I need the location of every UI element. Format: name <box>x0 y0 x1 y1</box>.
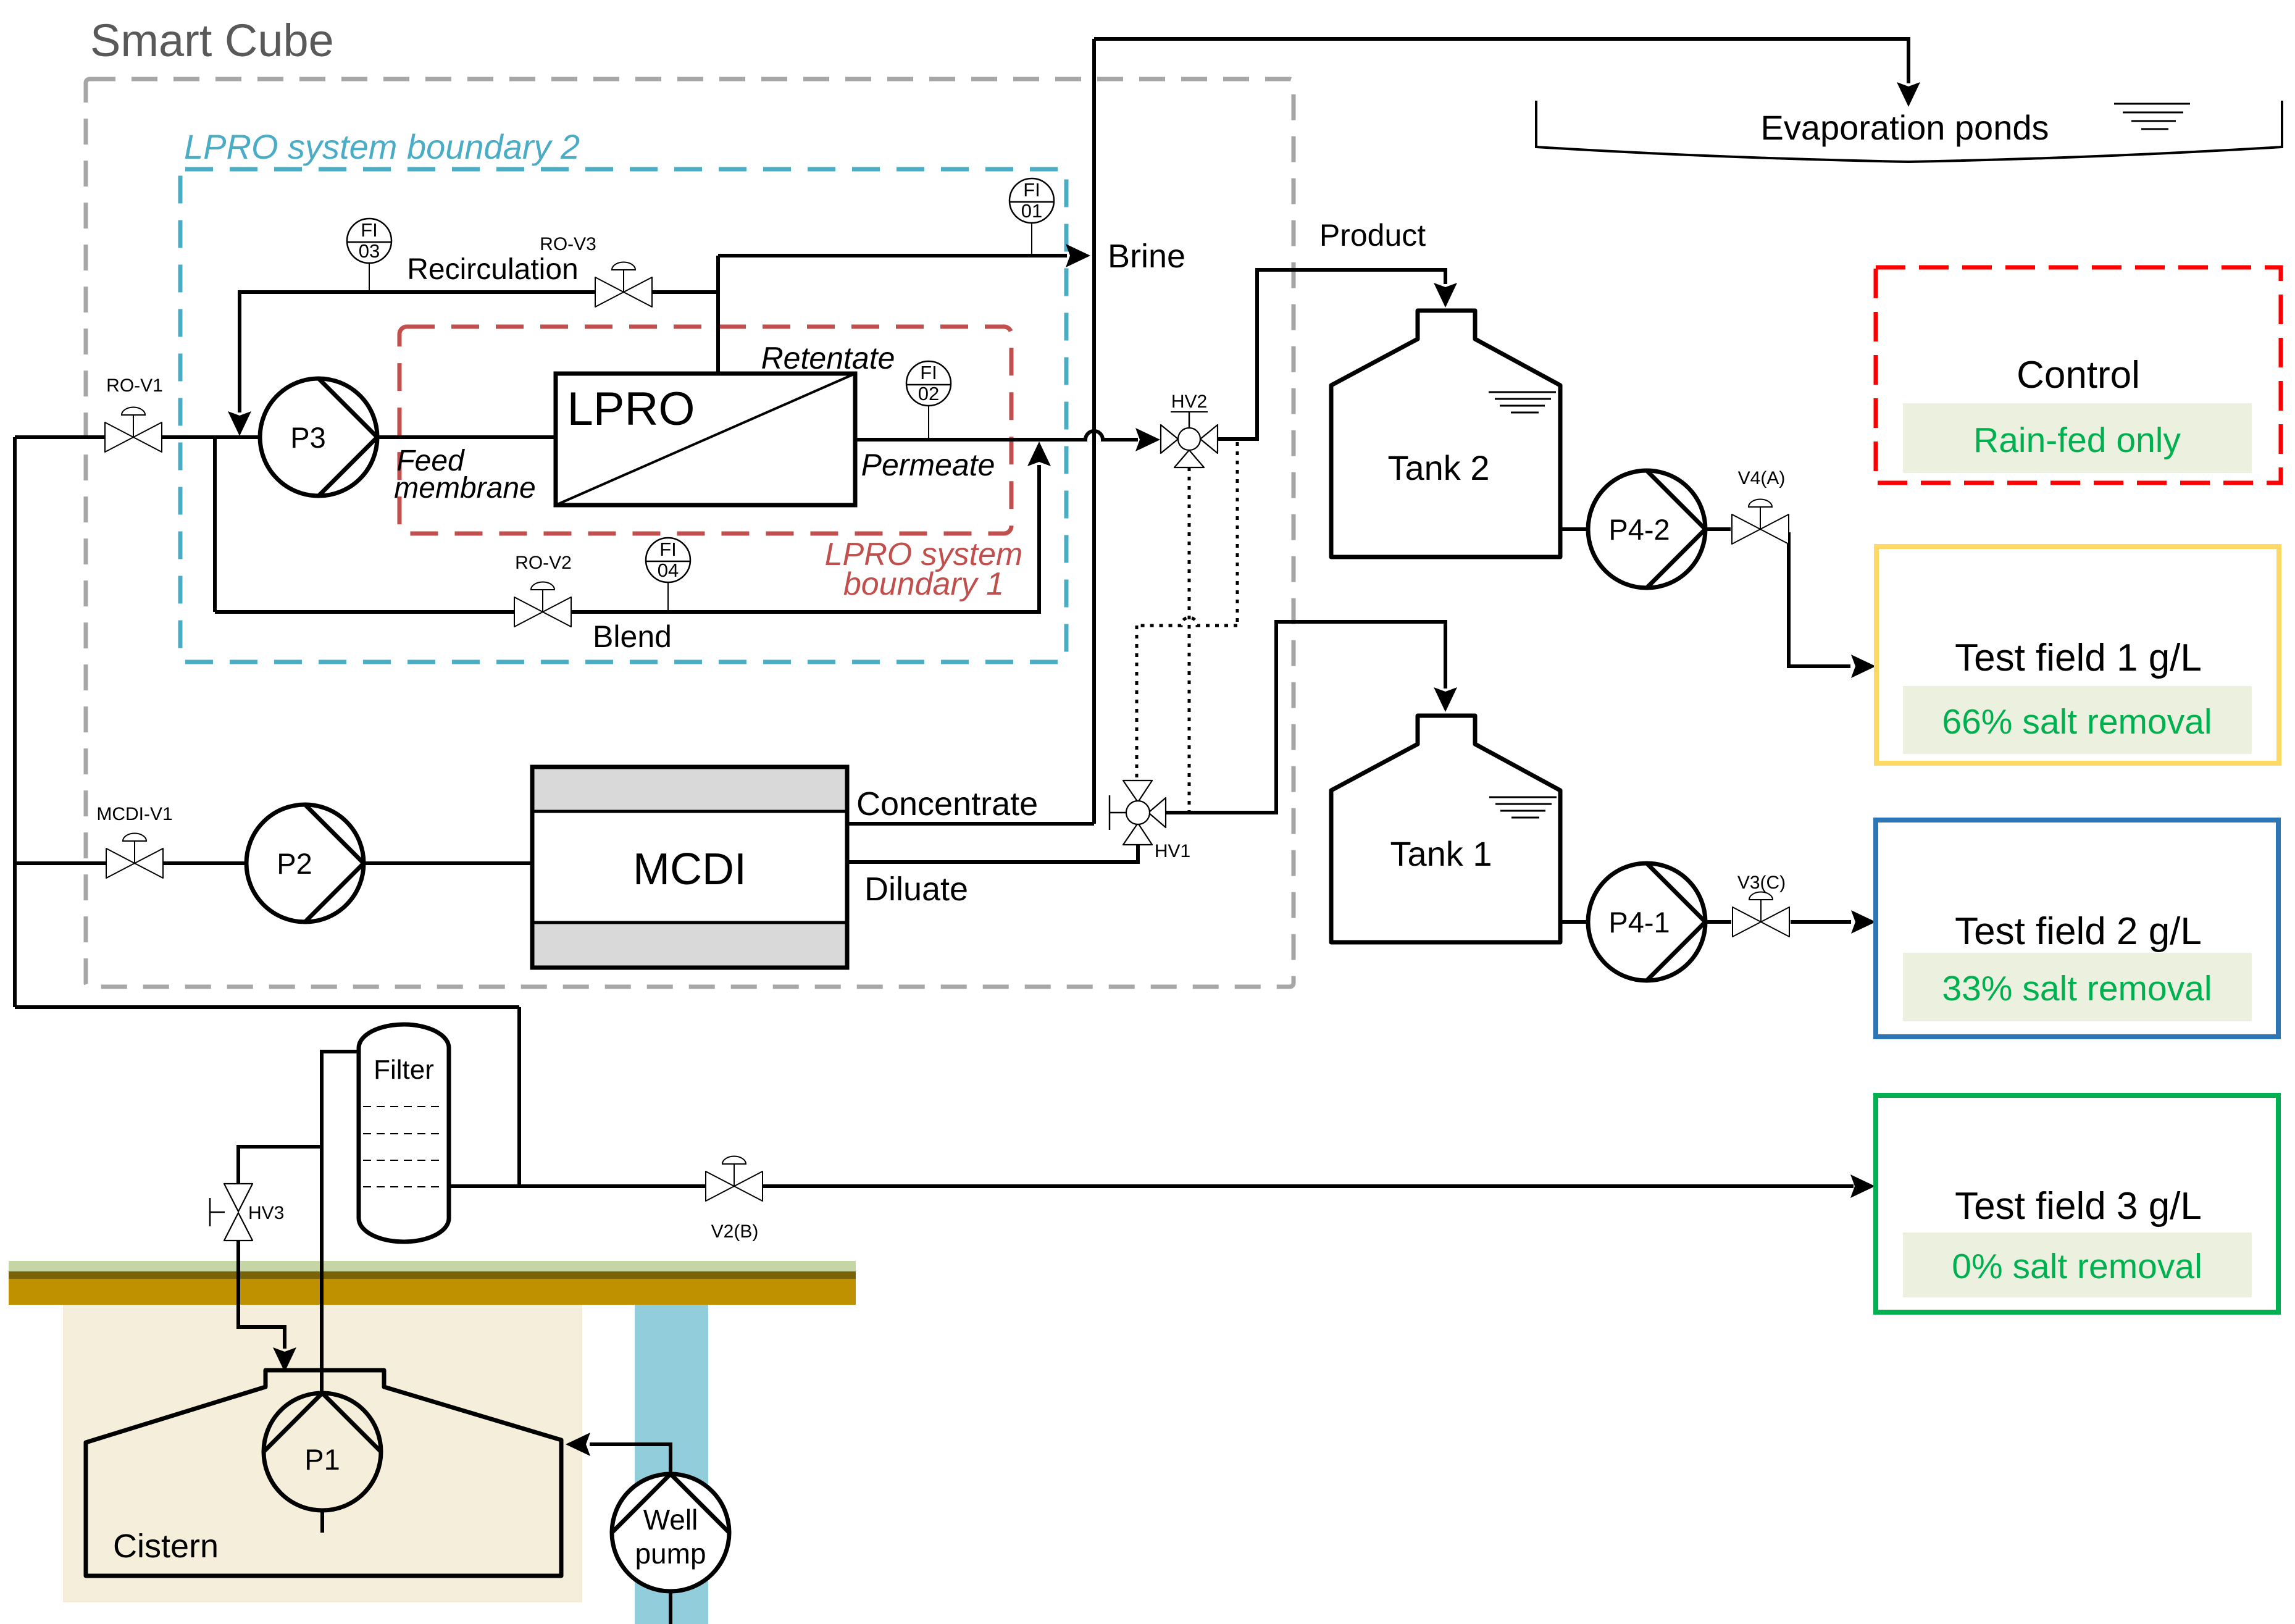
ground layer earth (gold band) <box>9 1279 856 1305</box>
instrument FI-01 <box>1010 178 1054 254</box>
Smart Cube boundary (gray dashed box) <box>86 79 1294 987</box>
svg-text:Rain-fed only: Rain-fed only <box>1973 421 2181 460</box>
svg-text:04: 04 <box>658 559 679 581</box>
wire: HV1 outlet to Tank 1 <box>1166 622 1445 813</box>
svg-text:RO-V1: RO-V1 <box>106 375 163 396</box>
svg-text:01: 01 <box>1021 200 1042 222</box>
wire: filtered water distribution line to Test field 3 <box>449 1184 1854 1188</box>
wire: V3(C) to Test field 2 <box>1791 920 1851 924</box>
evaporation pond water level symbol <box>2114 104 2190 129</box>
pump P3 <box>260 379 377 496</box>
svg-text:Permeate: Permeate <box>861 448 995 482</box>
LPRO system boundary 2 (blue dashed box) <box>180 169 1066 662</box>
signal: dotted line HV2 bottom port down to Tank 1 line <box>1188 467 1191 811</box>
wire: MCDI feed branch <box>15 861 532 865</box>
signal: dotted cross line with hop <box>1137 617 1237 626</box>
arrow recirculation into feed line <box>228 411 251 436</box>
valve RO-V1 <box>105 408 162 453</box>
valve V3(C) <box>1733 892 1789 937</box>
arrow into evaporation pond <box>1897 82 1920 107</box>
wire: bottom header from riser to filter riser <box>15 1005 519 1009</box>
svg-text:P4-1: P4-1 <box>1608 906 1670 939</box>
instrument FI-02 <box>906 361 951 438</box>
arrow product into Tank 2 <box>1434 283 1457 308</box>
svg-text:MCDI: MCDI <box>633 845 746 894</box>
svg-text:RO-V2: RO-V2 <box>515 553 572 573</box>
wire: recirculation line <box>240 292 718 412</box>
wire: V4(A) to Test field 1 <box>1789 532 1850 666</box>
svg-text:Evaporation ponds: Evaporation ponds <box>1760 108 2049 147</box>
ground layer topsoil (light green) <box>9 1261 856 1271</box>
svg-text:03: 03 <box>359 240 380 262</box>
svg-text:HV1: HV1 <box>1155 841 1190 861</box>
valve RO-V3 <box>595 262 652 308</box>
Test field 2 box (blue) <box>1876 820 2278 1037</box>
svg-text:P3: P3 <box>290 421 326 454</box>
valve HV1 (3-way valve) <box>1110 781 1166 845</box>
instrument FI-04 <box>646 538 690 610</box>
wire: P1 suction stub <box>320 1510 324 1533</box>
wire: HV3 branch from filter riser <box>238 1147 322 1184</box>
valve MCDI-V1 <box>106 834 163 879</box>
ground layer subsoil (dark olive stripe) <box>9 1271 856 1279</box>
pump P1 <box>264 1393 381 1510</box>
Tank 2 <box>1331 311 1560 557</box>
svg-text:02: 02 <box>918 383 939 404</box>
valve HV2 (3-way valve) <box>1161 411 1218 467</box>
arrow well water into cistern <box>566 1433 590 1456</box>
svg-text:33% salt removal: 33% salt removal <box>1942 969 2212 1008</box>
svg-text:Tank 2: Tank 2 <box>1388 448 1490 487</box>
Tank 2 water level symbol <box>1489 392 1556 412</box>
svg-text:membrane: membrane <box>394 472 535 504</box>
signal: dotted line down to HV1 top port <box>1135 626 1139 781</box>
wire: brine line <box>718 254 1067 257</box>
svg-text:LPRO system boundary 2: LPRO system boundary 2 <box>184 127 580 166</box>
svg-text:Product: Product <box>1319 218 1426 253</box>
svg-text:Control: Control <box>2017 354 2140 396</box>
svg-text:V3(C): V3(C) <box>1737 873 1786 893</box>
wire: retentate riser from LPRO to brine line <box>716 256 720 374</box>
label Feed membrane <box>394 445 535 504</box>
wire: HV2 outlet to product riser <box>1218 270 1445 439</box>
cistern tank outline <box>86 1370 561 1576</box>
wire: evaporation pond header <box>1094 39 1908 83</box>
svg-text:Recirculation: Recirculation <box>407 253 578 286</box>
svg-text:V4(A): V4(A) <box>1738 468 1786 488</box>
svg-text:FI: FI <box>1023 179 1040 201</box>
wire: blend branch down from feed header <box>213 437 217 612</box>
membrane unit LPRO <box>556 374 855 505</box>
wire: MCDI diluate line to HV1 <box>847 842 1138 862</box>
wire: P4-1 to V3(C) <box>1705 920 1731 924</box>
LPRO system boundary 1 (red dashed box) <box>399 327 1011 534</box>
Test field 2 green band <box>1903 953 2252 1021</box>
signal: dotted line from permeate line down <box>1236 442 1239 626</box>
valve HV3 (vertical hand valve with capped stub) <box>210 1184 253 1241</box>
svg-text:Blend: Blend <box>593 619 672 654</box>
well shaft background (light blue) <box>635 1305 708 1624</box>
svg-text:FI: FI <box>361 219 378 241</box>
evaporation pond basin <box>1536 101 2282 162</box>
Filter vessel <box>359 1024 449 1242</box>
arrow brine into main riser <box>1066 244 1090 267</box>
wire: left riser from feed header down to cistern header <box>13 437 17 1007</box>
svg-text:Test field 3 g/L: Test field 3 g/L <box>1955 1185 2202 1228</box>
svg-text:Diluate: Diluate <box>864 871 968 908</box>
pump P2 <box>246 805 364 922</box>
svg-text:66% salt removal: 66% salt removal <box>1942 702 2212 742</box>
valve V4(A) <box>1732 500 1789 545</box>
svg-text:pump: pump <box>635 1538 706 1570</box>
svg-text:Concentrate: Concentrate <box>856 785 1038 822</box>
wire: P1 riser to filter inlet <box>322 1052 359 1394</box>
valve V2(B) <box>706 1157 763 1202</box>
svg-text:Retentate: Retentate <box>761 341 895 375</box>
arrow into Tank 1 <box>1434 687 1457 712</box>
svg-text:FI: FI <box>659 538 677 560</box>
svg-text:Cistern: Cistern <box>113 1528 219 1565</box>
svg-text:Brine: Brine <box>1108 238 1185 275</box>
wire: P4-2 to V4(A) <box>1705 527 1731 531</box>
pump P4-2 <box>1588 471 1705 588</box>
Test field 3 box (green) <box>1876 1095 2278 1312</box>
label LPRO system boundary 1 <box>825 537 1023 602</box>
svg-text:P4-2: P4-2 <box>1608 513 1670 546</box>
svg-text:HV3: HV3 <box>248 1203 284 1223</box>
wire: main riser brine/concentrate to evaporation <box>1092 39 1096 824</box>
wire: MCDI concentrate line <box>847 822 1094 826</box>
wire: HV3 outlet into cistern <box>238 1241 285 1349</box>
Test field 1 box (yellow) <box>1876 546 2279 763</box>
arrow into Test field 3 <box>1850 1174 1875 1198</box>
svg-text:FI: FI <box>920 362 937 383</box>
svg-text:Tank 1: Tank 1 <box>1390 834 1492 873</box>
pump P4-1 <box>1588 863 1705 981</box>
Test field 1 green band <box>1903 686 2252 754</box>
wire: blend line <box>215 465 1039 612</box>
arrow permeate into HV2 <box>1135 428 1160 451</box>
svg-text:HV2: HV2 <box>1171 391 1207 412</box>
svg-text:boundary 1: boundary 1 <box>843 566 1004 602</box>
svg-text:Smart Cube: Smart Cube <box>90 15 334 66</box>
Test field 3 green band <box>1903 1233 2252 1297</box>
wire: well pump to cistern <box>590 1444 671 1474</box>
arrow blend into permeate line <box>1027 442 1051 466</box>
arrow into cistern <box>273 1347 296 1372</box>
wire: filter outlet riser <box>517 1007 521 1186</box>
svg-text:RO-V3: RO-V3 <box>540 234 596 254</box>
Tank 1 <box>1331 716 1560 942</box>
well pump <box>612 1474 729 1591</box>
svg-text:P2: P2 <box>277 847 312 880</box>
wire: raw water feed header <box>15 435 556 439</box>
MCDI unit <box>532 767 847 968</box>
arrow into Test field 2 <box>1851 910 1876 934</box>
svg-text:MCDI-V1: MCDI-V1 <box>96 804 172 824</box>
wire: Tank 1 outlet to P4-1 <box>1560 920 1588 924</box>
svg-text:Well: Well <box>643 1504 698 1536</box>
Tank 1 water level symbol <box>1489 797 1557 818</box>
wire: Tank 2 outlet to P4-2 <box>1560 527 1588 531</box>
svg-text:Test field 2 g/L: Test field 2 g/L <box>1955 910 2202 953</box>
Control plot boundary (bright red dashed box) <box>1876 267 2281 483</box>
valve RO-V2 <box>514 582 571 627</box>
wire: permeate line with hop over main riser <box>855 431 1138 440</box>
wire: well pump suction stub <box>669 1591 672 1624</box>
svg-text:Filter: Filter <box>374 1055 434 1085</box>
cistern pit background (beige) <box>63 1305 582 1602</box>
arrow into Test field 1 <box>1851 655 1876 678</box>
svg-text:LPRO: LPRO <box>567 383 695 435</box>
svg-text:V2(B): V2(B) <box>711 1221 759 1242</box>
svg-text:Test field 1 g/L: Test field 1 g/L <box>1955 637 2202 679</box>
svg-text:P1: P1 <box>304 1443 340 1476</box>
svg-text:0% salt removal: 0% salt removal <box>1952 1247 2202 1286</box>
instrument FI-03 <box>347 219 391 290</box>
Control green band <box>1903 403 2252 473</box>
valve tag HV2 with underline <box>1171 391 1208 412</box>
